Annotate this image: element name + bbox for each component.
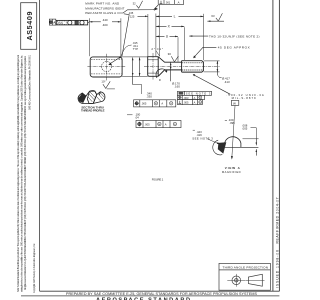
svg-text:.095: .095 <box>229 121 235 125</box>
corner radius callout .015/.011 TYP <box>132 41 138 51</box>
view A dome arc <box>224 137 241 148</box>
svg-text:A: A <box>165 122 167 126</box>
side view head chamfer inner line bottom <box>148 72 158 74</box>
svg-text:.005: .005 <box>242 127 248 131</box>
svg-text:SAE 400 Commonwealth Drive, Wa: SAE 400 Commonwealth Drive, Warrendale, … <box>29 54 32 110</box>
extension line thread end <box>203 14 205 60</box>
dim L line <box>156 15 172 17</box>
top plan view flats area with PLN text <box>57 21 66 24</box>
dim .440/.400 line with arrows <box>89 21 101 23</box>
head height value text .340/.330 <box>146 91 152 98</box>
extension line head right face upper <box>155 14 157 57</box>
svg-text:M: M <box>155 103 157 105</box>
border right outer vertical line <box>278 0 280 291</box>
svg-text:A: A <box>161 102 163 106</box>
section thru thread profile pictorial <box>78 91 105 104</box>
svg-text:32: 32 <box>133 2 136 6</box>
view A base line <box>224 146 259 148</box>
surface finish 32 symbol at top <box>133 2 136 6</box>
svg-text:M: M <box>158 124 160 126</box>
svg-text:L: L <box>174 15 176 19</box>
view A vertical dim arrows <box>255 139 257 146</box>
thread spec leader to thread <box>194 75 231 94</box>
svg-text:VIEW A: VIEW A <box>225 166 241 170</box>
view extension bottom between views <box>122 75 148 77</box>
footer top horizontal line <box>40 290 280 292</box>
full radius arc arrow at head chamfer <box>156 69 167 78</box>
side view head chamfer inner line top <box>148 59 158 61</box>
side view top chamfer to neck <box>158 57 181 63</box>
svg-text:A: A <box>178 1 180 5</box>
view A leader from note to wedge <box>207 139 218 144</box>
svg-text:AS5409: AS5409 <box>25 12 34 41</box>
dash leader and .100 value <box>127 114 133 116</box>
side view thread minor dia dashed bottom <box>182 69 203 71</box>
thread OD extension lines <box>204 60 220 62</box>
side view part centerline <box>144 65 220 67</box>
stub line from bar to extension <box>88 22 90 24</box>
AS5409 title box <box>21 3 37 50</box>
svg-text:.001: .001 <box>165 1 171 5</box>
svg-text:PLN: PLN <box>58 22 63 25</box>
side view head outline <box>148 57 159 77</box>
datum A flag <box>49 19 56 25</box>
thread OD dim line <box>216 61 218 75</box>
svg-text:SEE NOTE 3: SEE NOTE 3 <box>186 92 211 96</box>
neck diameter dim with arrows <box>170 62 172 81</box>
45 deg approx note <box>218 45 250 49</box>
dim X line <box>156 25 167 27</box>
position tolerance frame below side view <box>134 100 176 107</box>
svg-text:MIL-S-8879: MIL-S-8879 <box>232 96 256 100</box>
projection symbol cone <box>246 274 265 286</box>
extension line thread start X <box>183 27 185 60</box>
svg-text:MANUFACTURERS IDENT: MANUFACTURERS IDENT <box>85 6 124 10</box>
view A caption <box>225 166 241 170</box>
view A .008/.005 callout <box>242 124 248 131</box>
side view thread minor dia dashed top <box>182 62 203 64</box>
neck diameter text <box>172 81 180 88</box>
thread spec note two lines <box>226 93 264 100</box>
svg-text:All rights reserved. Printed i: All rights reserved. Printed in U.S.A. Q… <box>24 55 27 290</box>
svg-text:Copyright 1998 Society of Auto: Copyright 1998 Society of Automotive Eng… <box>33 243 36 293</box>
svg-text:.005: .005 <box>141 102 147 106</box>
svg-text:THIRD ANGLE PROJECTION: THIRD ANGLE PROJECTION <box>223 265 269 269</box>
dim .135/.125 text <box>128 11 135 19</box>
svg-text:PREPARED BY SAE COMMITTEE E-25: PREPARED BY SAE COMMITTEE E-25, GENERAL … <box>66 292 258 296</box>
projection symbol circle <box>232 276 241 285</box>
view extension top between views <box>122 56 148 58</box>
side view bottom chamfer to neck <box>158 70 181 76</box>
dim .440/.400 text <box>102 18 108 27</box>
thread length dim line with left arrow <box>189 35 208 37</box>
side view head vertical centerline <box>152 53 154 80</box>
extension line head left face <box>147 14 149 56</box>
W box under thread note <box>231 101 239 106</box>
svg-text:.330: .330 <box>146 95 152 99</box>
front view vertical centerline <box>106 54 108 81</box>
top plan view left hole circle <box>68 21 72 25</box>
svg-text:.005: .005 <box>144 122 150 126</box>
head height dim line 1 <box>132 58 134 85</box>
view A leader from W box <box>232 106 235 159</box>
svg-text:SAE Technical Standards Board: SAE Technical Standards Board Rules prov… <box>17 55 20 292</box>
sidebar disclaimer rotated tiny text column 1 <box>17 54 36 293</box>
front view outline <box>90 57 122 77</box>
svg-text:.005: .005 <box>183 100 189 104</box>
composite frame row 1 SEE NOTE <box>178 91 212 95</box>
svg-text:PER AS478 CLASS A: PER AS478 CLASS A <box>85 11 116 15</box>
svg-text:.413: .413 <box>224 80 230 84</box>
section thru thread profile caption <box>81 106 105 113</box>
projection symbol crosshairs <box>227 274 245 287</box>
svg-text:ISSUED 1998-06: ISSUED 1998-06 <box>275 250 279 288</box>
marking note leader to tolerance frame <box>117 5 158 13</box>
border right inner vertical line <box>272 0 274 291</box>
svg-text:FIGURE 1: FIGURE 1 <box>152 177 164 181</box>
front view horizontal centerline <box>87 66 125 68</box>
view A bracket from .008 to dim <box>251 128 257 139</box>
figure label <box>152 177 164 181</box>
marking note text (3 lines) <box>85 2 124 15</box>
45 deg leader <box>195 47 217 56</box>
top plan view right hole circle <box>80 21 84 25</box>
dim .440/.400 extension lines <box>88 18 90 56</box>
view A left arc <box>213 140 223 155</box>
svg-text:THD 10-32UNJF (SEE NOTE 2): THD 10-32UNJF (SEE NOTE 2) <box>209 34 260 38</box>
svg-text:45 DEG APPROX: 45 DEG APPROX <box>218 45 250 49</box>
thread OD text <box>217 75 221 78</box>
svg-text:10°: 10° <box>101 80 105 84</box>
elbow leader for head height value <box>133 85 142 94</box>
svg-text:.400: .400 <box>102 23 108 27</box>
perpendicularity tolerance frame (cut by top edge) <box>158 0 184 4</box>
side view head right face <box>157 57 159 77</box>
top plan view dark slot <box>75 21 79 25</box>
10 deg draft callout under front view <box>101 80 105 84</box>
view A .100/.095 callout <box>228 118 235 125</box>
svg-text:MAGNIFIED: MAGNIFIED <box>222 170 241 174</box>
dim .135/.125 arrow line <box>138 15 149 17</box>
footer bottom horizontal line <box>21 295 279 297</box>
side view thread OD top <box>182 61 204 72</box>
marking note leader to front view hole <box>110 14 130 64</box>
svg-text:W: W <box>233 101 236 105</box>
svg-text:63: 63 <box>211 14 215 18</box>
30 deg chamfer callout <box>168 52 172 56</box>
svg-text:THREAD PROFILE: THREAD PROFILE <box>81 109 105 113</box>
dim U line <box>156 35 165 37</box>
svg-text:2° ±1°: 2° ±1° <box>151 47 163 51</box>
third angle projection box <box>219 263 270 290</box>
svg-text:.160: .160 <box>174 85 180 89</box>
view A filled wedge <box>218 142 227 153</box>
head height dim line 2 <box>139 58 141 77</box>
svg-text:REAFFIRMED 2004-07: REAFFIRMED 2004-07 <box>275 197 279 243</box>
svg-text:A: A <box>194 100 196 104</box>
second tolerance frame <box>136 121 181 128</box>
front view hole dashed circle <box>102 62 112 72</box>
2 deg taper callout <box>151 47 163 51</box>
svg-text:.125: .125 <box>129 15 135 19</box>
svg-text:A: A <box>194 96 196 100</box>
svg-text:.04: .04 <box>135 116 139 120</box>
side view thread start face <box>181 61 183 72</box>
view A ext line <box>243 138 259 140</box>
thread callout note <box>209 34 260 38</box>
front view hidden line bottom <box>91 73 121 75</box>
front view hidden line top <box>91 58 121 60</box>
view A .443/.419 callout <box>192 130 213 141</box>
svg-text:.440: .440 <box>102 18 108 22</box>
surface finish 63 symbol with leader <box>207 20 224 22</box>
svg-text:arising therefrom, is the sole: arising therefrom, is the sole responsib… <box>20 55 23 292</box>
svg-text:30: 30 <box>168 52 172 56</box>
svg-text:TYP: TYP <box>133 47 138 51</box>
composite frame row 3 <box>178 100 203 105</box>
svg-text:.003: .003 <box>183 96 189 100</box>
border left vertical line <box>39 0 41 291</box>
svg-text:R: R <box>159 78 161 82</box>
svg-text:MARK PART NO. AND: MARK PART NO. AND <box>85 2 120 6</box>
svg-text:.135: .135 <box>128 11 134 15</box>
extension line undercut U <box>177 37 179 61</box>
top plan view bar outline <box>56 20 87 25</box>
composite frame row 2 <box>178 95 205 99</box>
